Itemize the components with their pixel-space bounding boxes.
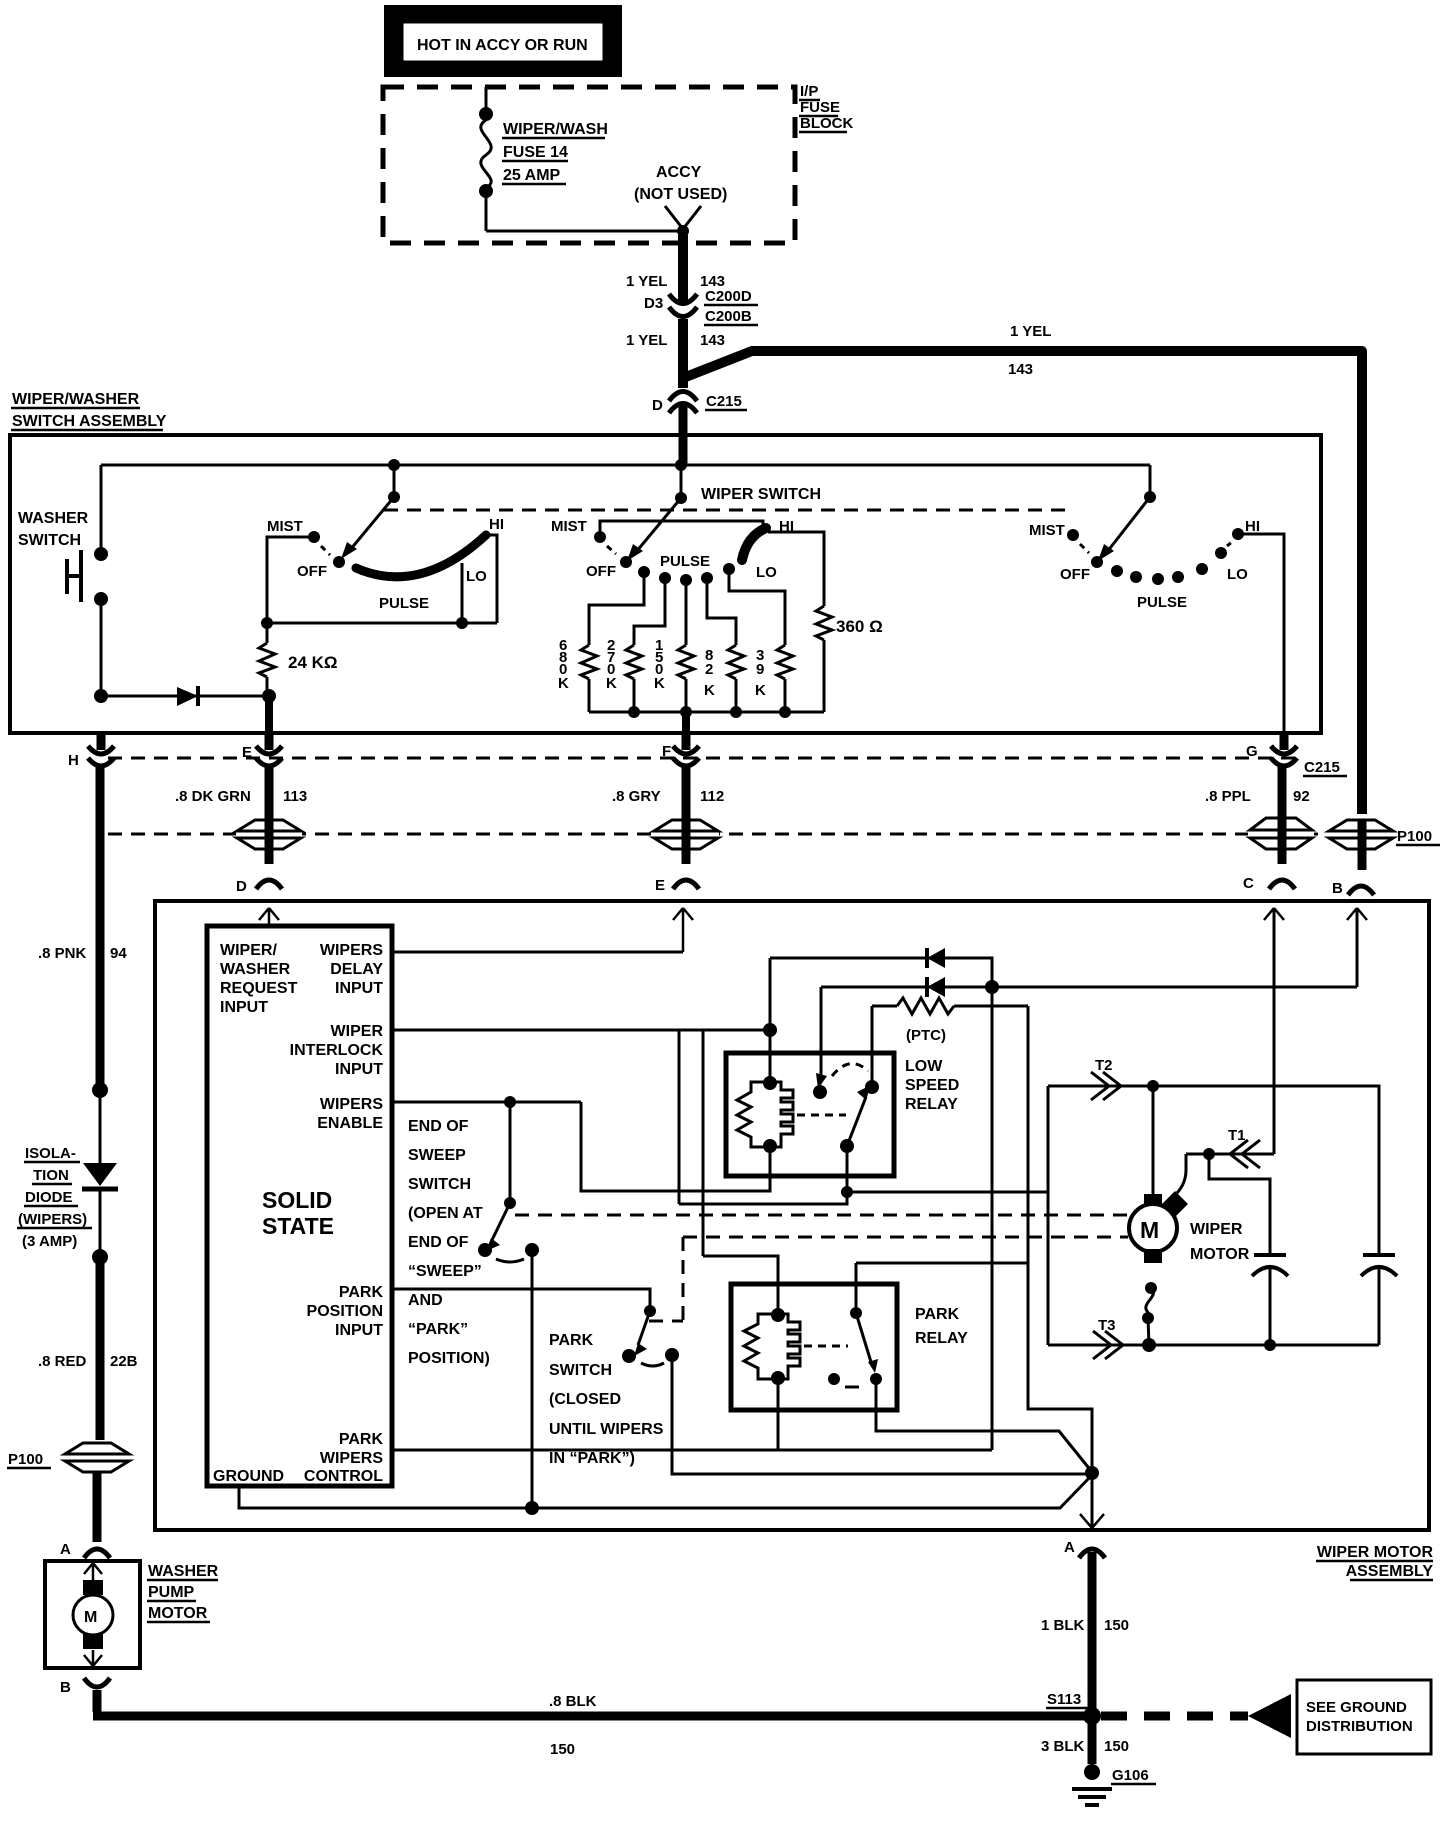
wire HI contact sw1: [487, 535, 497, 623]
svg-text:SWITCH: SWITCH: [408, 1176, 471, 1193]
node bus junction D: [675, 459, 687, 471]
node end of sweep tap: [504, 1096, 516, 1108]
node T1 junction: [1203, 1148, 1215, 1160]
wire LO contact sw1: [461, 563, 464, 623]
svg-text:(NOT USED): (NOT USED): [634, 186, 727, 203]
node sw1 mist junction: [261, 617, 273, 629]
wire T2 to cap2: [1153, 1086, 1379, 1255]
relay park box: [731, 1284, 897, 1410]
terminal arrow D input: [259, 908, 279, 926]
wire T2/T3 column: [1047, 1086, 1050, 1345]
svg-text:WIPER MOTOR: WIPER MOTOR: [1317, 1544, 1434, 1561]
label isolation diode: [17, 1145, 92, 1250]
wire sw2 ladder bus: [589, 711, 824, 714]
node bus junction sw1: [388, 459, 400, 471]
svg-text:(CLOSED: (CLOSED: [549, 1391, 621, 1408]
wire G column: [1278, 766, 1287, 864]
svg-text:M: M: [1140, 1217, 1159, 1243]
connector terminal C (motor assembly): [1243, 875, 1295, 892]
washer switch SW: [67, 465, 108, 694]
wire .8 RED 22B: [38, 1257, 138, 1440]
switch end of sweep: [478, 1102, 539, 1262]
svg-text:INPUT: INPUT: [335, 1322, 383, 1339]
node diode bottom: [92, 1249, 108, 1265]
svg-text:INPUT: INPUT: [335, 1061, 383, 1078]
svg-text:.8 PPL: .8 PPL: [1205, 788, 1251, 805]
svg-text:SOLID: SOLID: [262, 1187, 332, 1213]
diode CR2 (wipers delay): [770, 948, 992, 987]
wire .8 BLK 150: [93, 1690, 1086, 1758]
svg-text:C200D: C200D: [705, 288, 752, 305]
svg-text:(3 AMP): (3 AMP): [22, 1233, 77, 1250]
wire end of sweep to ground bus: [531, 1250, 534, 1508]
svg-text:CONTROL: CONTROL: [304, 1468, 383, 1485]
svg-text:K: K: [606, 675, 617, 692]
wire armature to park relay switch: [856, 1262, 1028, 1265]
connector C215 terminal H: [68, 733, 114, 769]
connector terminal E (motor assembly): [655, 877, 699, 894]
label wipers delay input: [320, 942, 383, 997]
svg-text:D3: D3: [644, 295, 663, 312]
wire ground to A node: [239, 1475, 1092, 1508]
svg-text:112: 112: [700, 788, 724, 805]
svg-text:DISTRIBUTION: DISTRIBUTION: [1306, 1718, 1413, 1735]
svg-text:IN “PARK”): IN “PARK”): [549, 1450, 635, 1467]
svg-text:WIPERS: WIPERS: [320, 1450, 383, 1467]
svg-text:1 YEL: 1 YEL: [626, 273, 667, 290]
svg-text:.8 DK GRN: .8 DK GRN: [175, 788, 251, 805]
svg-text:INPUT: INPUT: [335, 980, 383, 997]
rotary wiper switch SW1: [267, 465, 504, 612]
node interlock-coil junction: [763, 1023, 777, 1037]
wire F column: [682, 766, 691, 864]
label end of sweep switch: [408, 1118, 490, 1367]
svg-text:P100: P100: [8, 1451, 43, 1468]
wire HI to 360 ohm: [768, 532, 824, 606]
node T2 junction: [1147, 1080, 1159, 1092]
svg-text:WASHER: WASHER: [148, 1563, 219, 1580]
connector C200D/C200B terminal D3: [644, 288, 758, 325]
svg-text:WASHER: WASHER: [18, 510, 89, 527]
svg-text:PARK: PARK: [915, 1306, 960, 1323]
svg-text:150: 150: [1104, 1738, 1129, 1755]
terminal arrow E input: [673, 908, 693, 952]
svg-text:OFF: OFF: [1060, 566, 1090, 583]
wire diode node to park wipers control: [991, 987, 994, 1450]
relay low speed box: [726, 1053, 894, 1176]
label wiper motor assembly: [1316, 1544, 1433, 1580]
svg-text:PULSE: PULSE: [379, 595, 429, 612]
label I/P FUSE BLOCK: [799, 83, 853, 132]
svg-text:25 AMP: 25 AMP: [503, 167, 561, 184]
svg-text:PARK: PARK: [339, 1284, 384, 1301]
svg-text:G106: G106: [1112, 1767, 1149, 1784]
svg-text:AND: AND: [408, 1292, 443, 1309]
svg-text:SWEEP: SWEEP: [408, 1147, 466, 1164]
svg-text:LO: LO: [1227, 566, 1248, 583]
svg-text:RELAY: RELAY: [915, 1330, 968, 1347]
svg-text:9: 9: [756, 661, 764, 678]
svg-text:.8 BLK: .8 BLK: [549, 1693, 597, 1710]
svg-text:RELAY: RELAY: [905, 1096, 958, 1113]
label WIPER/WASH FUSE 14 25 AMP: [502, 121, 608, 184]
svg-text:B: B: [1332, 880, 1343, 897]
resistor 360 ohm: [816, 606, 883, 712]
svg-text:P100: P100: [1397, 828, 1432, 845]
svg-text:REQUEST: REQUEST: [220, 980, 298, 997]
svg-text:ACCY: ACCY: [656, 164, 702, 181]
svg-text:END OF: END OF: [408, 1118, 469, 1135]
svg-text:D: D: [652, 397, 663, 414]
svg-text:F: F: [662, 743, 671, 760]
wire F output: [682, 712, 690, 733]
wire 3 BLK 150: [1041, 1722, 1129, 1764]
svg-text:END OF: END OF: [408, 1234, 469, 1251]
svg-text:SWITCH: SWITCH: [18, 532, 81, 549]
connector terminal B (washer pump): [60, 1678, 110, 1696]
wire park switch to A node: [672, 1355, 1092, 1474]
svg-text:PUMP: PUMP: [148, 1584, 195, 1601]
wire MIST-HI link sw2: [600, 521, 763, 533]
diode CR3 (B feed): [821, 977, 1357, 997]
terminal arrow C input: [1264, 908, 1284, 1154]
svg-text:STATE: STATE: [262, 1213, 334, 1239]
relay K1 coil: [737, 1076, 846, 1153]
wire H column isolation diode branch: [38, 945, 127, 962]
wire 1 YEL 143 (C200 to C215): [678, 319, 688, 388]
node diode top: [92, 1082, 108, 1098]
wire mechanical dashed link (wiper switch): [384, 509, 1066, 512]
wire park relay coil bottom to control: [777, 1379, 780, 1450]
label .8 DK GRN 113: [175, 788, 307, 805]
svg-text:C215: C215: [1304, 759, 1340, 776]
connector terminal D (motor assembly): [236, 878, 282, 895]
node armature out: [841, 1186, 853, 1198]
wire park position input: [392, 1289, 650, 1307]
wire fuse to ACCY node: [486, 230, 683, 233]
wire HI sw3 to G output: [1238, 534, 1284, 733]
svg-text:113: 113: [283, 788, 307, 805]
wire interlock second branch: [702, 1030, 705, 1256]
svg-text:FUSE 14: FUSE 14: [503, 144, 568, 161]
label washer pump motor: [147, 1563, 219, 1622]
svg-text:143: 143: [1008, 361, 1033, 378]
svg-text:LO: LO: [466, 568, 487, 585]
svg-text:MOTOR: MOTOR: [148, 1605, 208, 1622]
solid state module box: [207, 926, 392, 1486]
label park relay: [915, 1306, 968, 1347]
svg-text:I/P: I/P: [800, 83, 818, 100]
svg-text:DIODE: DIODE: [25, 1189, 73, 1206]
svg-text:PARK: PARK: [339, 1431, 384, 1448]
svg-text:(PTC): (PTC): [906, 1027, 946, 1044]
diode isolation (wipers) 3 amp: [82, 1090, 118, 1253]
svg-text:T1: T1: [1228, 1127, 1246, 1144]
label wiper motor: [1190, 1221, 1250, 1263]
relay K2 coil: [744, 1308, 848, 1385]
node A output junction: [1085, 1466, 1099, 1480]
svg-text:LO: LO: [756, 564, 777, 581]
connector terminal B (motor assembly): [1332, 880, 1374, 897]
svg-text:(WIPERS): (WIPERS): [18, 1211, 87, 1228]
resistor 82K: [704, 578, 744, 712]
svg-text:C215: C215: [706, 393, 742, 410]
wire diode1 to relay coil: [769, 958, 772, 1081]
grommet P100 B column: [1329, 820, 1440, 849]
svg-text:WASHER: WASHER: [220, 961, 291, 978]
resistor 270K: [606, 578, 665, 712]
svg-text:D: D: [236, 878, 247, 895]
wire mechanical link sweep switch to motor: [515, 1214, 1128, 1217]
svg-text:SPEED: SPEED: [905, 1077, 959, 1094]
resistor 24K: [259, 623, 338, 692]
svg-text:WIPER/: WIPER/: [220, 942, 277, 959]
rotary wiper switch SW2: [551, 465, 794, 581]
wiper/washer switch assembly box: [10, 435, 1321, 733]
connector C215 terminal F: [662, 733, 699, 766]
svg-text:WIPER SWITCH: WIPER SWITCH: [701, 486, 821, 503]
wire PTC to A node: [1028, 1006, 1092, 1473]
label park position input: [307, 1284, 384, 1339]
svg-text:H: H: [68, 752, 79, 769]
wire park relay armature to A node: [876, 1379, 1092, 1472]
svg-text:BLOCK: BLOCK: [800, 115, 853, 132]
svg-text:WIPERS: WIPERS: [320, 1096, 383, 1113]
svg-text:WIPER: WIPER: [1190, 1221, 1243, 1238]
svg-text:ASSEMBLY: ASSEMBLY: [1346, 1563, 1434, 1580]
arrow see ground distribution: [1248, 1694, 1291, 1738]
svg-text:2: 2: [705, 661, 713, 678]
capacitor C1: [1252, 1255, 1288, 1345]
svg-text:1 YEL: 1 YEL: [1010, 323, 1051, 340]
svg-text:.8 GRY: .8 GRY: [612, 788, 661, 805]
svg-text:TION: TION: [33, 1167, 69, 1184]
motor washer pump: [45, 1561, 140, 1668]
svg-text:K: K: [558, 675, 569, 692]
svg-text:INPUT: INPUT: [220, 999, 268, 1016]
svg-text:MIST: MIST: [267, 518, 303, 535]
wire wiper interlock input: [392, 1029, 770, 1032]
svg-text:360 Ω: 360 Ω: [836, 617, 883, 636]
relay K2 armature: [828, 1307, 882, 1387]
wire interlock to low speed relay armature: [679, 1192, 847, 1204]
wire 1 YEL 143 (fuse block to C200): [678, 235, 688, 301]
svg-text:A: A: [1064, 1539, 1075, 1556]
wire B column: [1358, 820, 1367, 870]
svg-text:1 YEL: 1 YEL: [626, 332, 667, 349]
wire sw1 bottom bus: [267, 622, 497, 625]
svg-text:K: K: [755, 682, 766, 699]
grommet F column: [654, 820, 718, 849]
connector C215 terminal E: [242, 733, 282, 766]
node sweep switch splice: [525, 1501, 539, 1515]
svg-text:E: E: [655, 877, 665, 894]
label wiper/washer request input: [220, 942, 298, 1016]
connector terminal A (motor assembly output): [1064, 1539, 1105, 1558]
wire armature contact to PTC: [871, 1006, 874, 1087]
svg-text:MIST: MIST: [551, 518, 587, 535]
grommet G column: [1250, 818, 1312, 849]
wire 1 YEL 143 branch to wiper motor assembly (right): [683, 323, 1362, 824]
grommet P100 (washer pump): [7, 1443, 129, 1472]
svg-text:HI: HI: [1245, 518, 1260, 535]
label WIPER/WASHER SWITCH ASSEMBLY: [11, 391, 167, 430]
node splice S113: [1046, 1691, 1101, 1725]
label park wipers control: [304, 1431, 384, 1485]
svg-text:92: 92: [1293, 788, 1310, 805]
wire 1 BLK 150: [1041, 1552, 1129, 1712]
wiper motor assembly box: [155, 901, 1429, 1530]
node washer switch to diode junction: [94, 689, 108, 703]
svg-text:C: C: [1243, 875, 1254, 892]
wire interlock to park relay coil: [703, 1256, 778, 1313]
svg-text:22B: 22B: [110, 1353, 138, 1370]
svg-text:HI: HI: [489, 516, 504, 533]
svg-text:150: 150: [550, 1741, 575, 1758]
svg-text:M: M: [84, 1609, 97, 1626]
wire enable to relay coil: [581, 1102, 770, 1191]
wire supply bus inside switch assembly: [101, 464, 1150, 467]
wire wipers enable: [392, 1101, 581, 1104]
svg-text:SEE GROUND: SEE GROUND: [1306, 1699, 1407, 1716]
resistor 680K: [558, 572, 644, 712]
svg-text:.8 PNK: .8 PNK: [38, 945, 87, 962]
label wiper interlock input: [290, 1023, 384, 1078]
connector C215 terminal G: [1246, 733, 1297, 766]
label wipers enable: [317, 1096, 383, 1132]
svg-text:INTERLOCK: INTERLOCK: [290, 1042, 384, 1059]
svg-text:MOTOR: MOTOR: [1190, 1246, 1250, 1263]
svg-text:PULSE: PULSE: [660, 553, 710, 570]
motor M wiper: [1129, 1191, 1188, 1263]
wire MIST contact sw1: [267, 537, 314, 621]
svg-text:FUSE: FUSE: [800, 99, 840, 116]
svg-text:SWITCH ASSEMBLY: SWITCH ASSEMBLY: [12, 413, 167, 430]
wire park wipers control: [392, 1449, 992, 1452]
resistor 39K: [729, 569, 793, 712]
grommet row dashed line: [108, 833, 1326, 836]
svg-text:K: K: [654, 675, 665, 692]
fuse F14 wiper/wash 25A: [479, 87, 493, 231]
wire relay armature out: [846, 1146, 849, 1192]
node E output junction: [262, 689, 276, 703]
terminal arrow A output: [1080, 1473, 1104, 1528]
wire T1 to cap1: [1209, 1154, 1270, 1255]
svg-text:E: E: [242, 744, 252, 761]
header box HOT IN ACCY OR RUN: [384, 5, 622, 77]
grommet E column: [237, 820, 301, 849]
thermal link T3: [1048, 1317, 1379, 1359]
node ladder junctions: [628, 706, 791, 718]
svg-text:POSITION: POSITION: [307, 1303, 383, 1320]
connector C215 row dashed line: [108, 757, 1296, 760]
svg-text:“SWEEP”: “SWEEP”: [408, 1263, 482, 1280]
svg-text:WIPER/WASHER: WIPER/WASHER: [12, 391, 140, 408]
wire washer switch to 24K node: [101, 695, 269, 698]
svg-text:143: 143: [700, 332, 725, 349]
wire interlock branch down: [678, 1030, 681, 1204]
svg-text:WIPERS: WIPERS: [320, 942, 383, 959]
svg-text:LOW: LOW: [905, 1058, 943, 1075]
wire diode2 to relay contact: [813, 987, 827, 1099]
svg-text:PARK: PARK: [549, 1332, 594, 1349]
svg-text:B: B: [60, 1679, 71, 1696]
svg-text:GROUND: GROUND: [213, 1468, 284, 1485]
node sw1 lo junction: [456, 617, 468, 629]
capacitor C2: [1361, 1255, 1397, 1345]
svg-text:“PARK”: “PARK”: [408, 1321, 468, 1338]
wire D into switch assembly: [679, 406, 688, 465]
node sw2 pulse contacts: [638, 563, 735, 586]
svg-text:OFF: OFF: [586, 563, 616, 580]
svg-text:DELAY: DELAY: [330, 961, 383, 978]
wire motor brush squiggle: [1142, 1282, 1157, 1345]
label C215: [1303, 759, 1347, 776]
relay K1 armature: [832, 1064, 879, 1153]
rotary wiper switch SW3: [1029, 465, 1260, 611]
svg-text:24 KΩ: 24 KΩ: [288, 653, 338, 672]
svg-text:.8 RED: .8 RED: [38, 1353, 87, 1370]
label WASHER SWITCH: [18, 510, 89, 549]
svg-text:A: A: [60, 1541, 71, 1558]
svg-text:(OPEN AT: (OPEN AT: [408, 1205, 483, 1222]
switch park: [622, 1305, 679, 1366]
resistor PTC: [872, 998, 1028, 1044]
wire wipers delay input to E: [392, 951, 683, 954]
wire T1 to motor brush: [1177, 1154, 1186, 1193]
svg-text:POSITION): POSITION): [408, 1350, 490, 1367]
svg-text:S113: S113: [1047, 1691, 1081, 1708]
connector C215 terminal D: [652, 392, 747, 415]
resistor 150K: [654, 580, 694, 712]
terminal arrow B input: [1347, 908, 1367, 987]
label SOLID STATE: [262, 1187, 334, 1239]
wire P100 to washer pump: [93, 1472, 102, 1542]
svg-text:G: G: [1246, 743, 1258, 760]
svg-text:ENABLE: ENABLE: [317, 1115, 383, 1132]
wire to ground distribution (dashed): [1101, 1712, 1248, 1721]
svg-text:HOT IN ACCY OR RUN: HOT IN ACCY OR RUN: [417, 37, 588, 54]
wire H column (.8 PNK): [96, 766, 105, 1086]
wire mechanical link park switch to motor: [649, 1237, 1128, 1321]
svg-text:MIST: MIST: [1029, 522, 1065, 539]
svg-text:WIPER/WASH: WIPER/WASH: [503, 121, 608, 138]
node diode junction: [985, 980, 999, 994]
wire E output (24K to box edge): [265, 700, 273, 733]
svg-text:150: 150: [1104, 1617, 1129, 1634]
I/P fuse block dashed box: [383, 87, 795, 243]
box see ground distribution: [1297, 1680, 1431, 1754]
ground G106: [1072, 1764, 1156, 1805]
svg-text:C200B: C200B: [705, 308, 752, 325]
svg-text:SWITCH: SWITCH: [549, 1362, 612, 1379]
label .8 PPL 92: [1205, 788, 1310, 805]
thermal link T2: [1048, 1057, 1151, 1100]
wire T2 node to motor: [1152, 1086, 1155, 1196]
label park switch: [549, 1332, 664, 1467]
svg-text:PULSE: PULSE: [1137, 594, 1187, 611]
terminal ACCY (NOT USED): [634, 164, 727, 237]
wire armature to T2/T3 column: [847, 1191, 1048, 1194]
svg-text:94: 94: [110, 945, 127, 962]
svg-text:1 BLK: 1 BLK: [1041, 1617, 1085, 1634]
label low speed relay: [905, 1058, 959, 1113]
svg-text:K: K: [704, 682, 715, 699]
thermal link T1: [1186, 1127, 1274, 1168]
grommet masks: [236, 814, 1394, 852]
connector terminal A (washer pump): [60, 1541, 110, 1558]
svg-text:UNTIL WIPERS: UNTIL WIPERS: [549, 1421, 664, 1438]
